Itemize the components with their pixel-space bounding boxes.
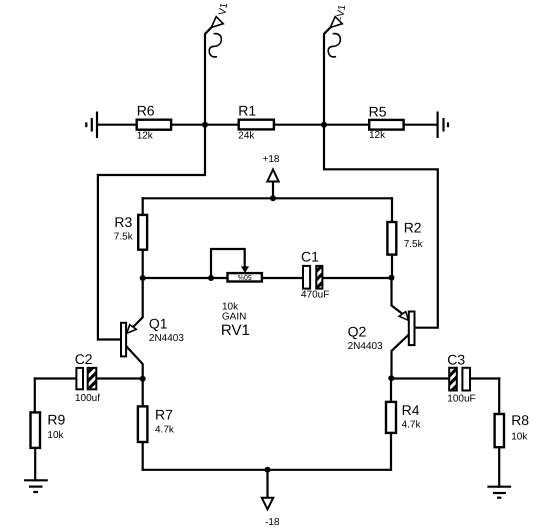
svg-text:2N4403: 2N4403 — [149, 333, 184, 344]
svg-text:R3: R3 — [114, 214, 132, 230]
svg-text:R7: R7 — [155, 407, 173, 423]
svg-text:24k: 24k — [238, 131, 255, 142]
svg-text:C1: C1 — [301, 249, 319, 265]
svg-text:10k: 10k — [47, 430, 64, 441]
svg-text:C2: C2 — [75, 351, 93, 367]
svg-text:R4: R4 — [402, 402, 420, 418]
svg-text:Q1: Q1 — [149, 316, 168, 332]
svg-text:7.5k: 7.5k — [404, 239, 424, 250]
svg-text:R8: R8 — [511, 412, 529, 428]
svg-text:10k: 10k — [511, 432, 528, 443]
svg-text:100uf: 100uf — [75, 393, 100, 404]
svg-text:C3: C3 — [447, 352, 465, 368]
svg-text:4.7k: 4.7k — [155, 424, 175, 435]
svg-text:-18: -18 — [265, 517, 280, 528]
svg-text:12k: 12k — [137, 131, 154, 142]
svg-text:R1: R1 — [238, 103, 256, 119]
svg-text:R6: R6 — [137, 102, 155, 118]
svg-text:7.5k: 7.5k — [114, 232, 134, 243]
svg-text:R9: R9 — [47, 412, 65, 428]
svg-text:12k: 12k — [369, 130, 386, 141]
svg-text:R2: R2 — [404, 220, 422, 236]
svg-text:RV1: RV1 — [221, 322, 250, 339]
svg-text:100uF: 100uF — [447, 394, 475, 405]
svg-text:50%: 50% — [238, 273, 252, 280]
svg-text:Q2: Q2 — [348, 323, 367, 339]
svg-text:+18: +18 — [263, 154, 280, 165]
svg-text:4.7k: 4.7k — [402, 419, 422, 430]
svg-text:470uF: 470uF — [301, 290, 329, 301]
svg-text:V1: V1 — [217, 2, 230, 16]
svg-text:R5: R5 — [369, 104, 387, 120]
svg-text:2N4403: 2N4403 — [348, 341, 383, 352]
svg-text:GAIN: GAIN — [222, 312, 246, 323]
